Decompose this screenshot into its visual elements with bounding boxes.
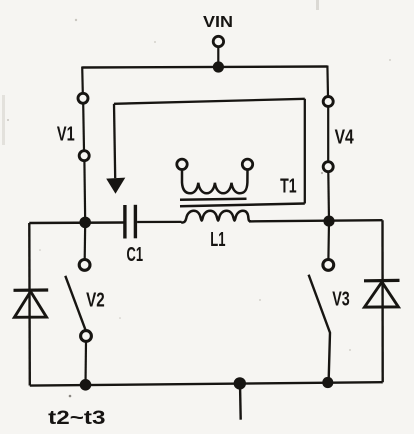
arrowhead (current direction) <box>106 178 125 194</box>
transformer T1 primary right terminal <box>242 159 252 169</box>
switch V2 <box>65 222 91 384</box>
svg-text:VIN: VIN <box>203 14 233 31</box>
transformer T1 primary winding <box>182 170 248 194</box>
wire mid-right <box>249 220 383 221</box>
svg-text:t2~t3: t2~t3 <box>48 408 105 429</box>
diode VD2 cathode bar <box>364 279 400 283</box>
transformer T1 primary left terminal <box>177 159 187 169</box>
wire top bus <box>82 67 327 68</box>
svg-text:L1: L1 <box>210 229 225 251</box>
node B: V3 / V4 junction <box>323 216 334 227</box>
transformer T1 core line 1 <box>180 199 247 200</box>
node V2 bottom junction <box>80 379 92 391</box>
inductor L1 (secondary winding) <box>181 211 251 223</box>
transformer T1 core line 2 (joins current-loop bottom) <box>180 204 305 207</box>
svg-text:V1: V1 <box>57 123 75 145</box>
wire C1 to T1 <box>137 221 181 223</box>
wire current-loop top <box>114 99 305 104</box>
terminal VIN <box>213 36 223 46</box>
capacitor C1 <box>125 205 135 239</box>
node VIN junction <box>213 61 224 72</box>
wire current-loop right <box>304 99 306 204</box>
wire current-loop left with arrow <box>114 104 115 178</box>
diode VD1 triangle <box>14 292 46 318</box>
switch V1 <box>78 67 89 223</box>
diode VD2 triangle <box>365 282 399 307</box>
svg-text:V3: V3 <box>332 288 350 310</box>
diode VD1 cathode bar <box>14 288 49 291</box>
node ground junction <box>234 377 246 389</box>
svg-text:T1: T1 <box>280 176 297 198</box>
svg-text:V2: V2 <box>86 290 105 312</box>
wire bottom bus <box>30 382 383 385</box>
wire right branch <box>381 220 384 382</box>
node A: V1 / C1 junction <box>79 217 91 229</box>
wire mid-left <box>29 221 123 224</box>
switch V3 <box>309 221 334 382</box>
svg-text:V4: V4 <box>335 127 355 149</box>
switch V4 <box>323 66 333 222</box>
wire left branch <box>28 223 31 386</box>
ground stub <box>239 383 242 419</box>
node V3 bottom junction <box>322 377 333 388</box>
svg-text:C1: C1 <box>127 244 144 266</box>
wire VIN stub <box>217 47 219 67</box>
